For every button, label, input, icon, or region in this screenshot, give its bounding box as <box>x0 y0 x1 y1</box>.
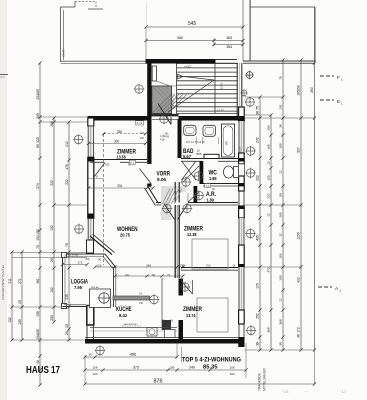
left wall below loggia segment <box>87 325 94 339</box>
left dim connector y205 <box>54 204 87 206</box>
survey point symbol 7 <box>194 190 204 200</box>
svg-text:105: 105 <box>267 175 271 180</box>
svg-text:75: 75 <box>167 273 171 277</box>
vorr door leaf zimmer1355 <box>140 169 152 184</box>
svg-text:65: 65 <box>36 144 40 148</box>
svg-text:109: 109 <box>36 329 40 335</box>
svg-text:5.67: 5.67 <box>183 154 191 159</box>
svg-text:160: 160 <box>279 253 283 258</box>
svg-text:90/128: 90/128 <box>172 100 175 108</box>
stair flight left edge <box>176 64 178 114</box>
right dim chain x271 lower <box>269 225 272 352</box>
svg-text:254: 254 <box>36 94 40 100</box>
left dim chain x40 labels <box>36 89 40 364</box>
kitchen cabinet block <box>90 289 111 308</box>
svg-text:194: 194 <box>92 372 97 376</box>
svg-text:90: 90 <box>98 258 102 262</box>
svg-text:20: 20 <box>50 258 54 262</box>
svg-text:152: 152 <box>8 317 12 323</box>
left wall pier at loggia door <box>87 240 94 253</box>
right dim chain x260 labels <box>256 106 260 346</box>
stair flights divider <box>214 63 216 114</box>
kitchen dark block <box>162 320 171 330</box>
survey point symbol 13 <box>245 97 255 107</box>
svg-text:181: 181 <box>125 273 130 277</box>
svg-text:90: 90 <box>225 141 229 145</box>
svg-text:1250: 1250 <box>297 232 301 240</box>
zimmer wall tag <box>130 160 136 164</box>
wall slab below lift <box>152 114 179 117</box>
svg-text:HAUS 17: HAUS 17 <box>26 365 60 376</box>
svg-text:90: 90 <box>152 273 156 277</box>
vorr ar partition wall <box>175 182 179 203</box>
svg-text:165: 165 <box>279 212 283 217</box>
bad washbasin 1 inner <box>186 127 194 133</box>
wohnen bottom dim row 2 <box>113 274 184 277</box>
svg-text:876: 876 <box>154 379 163 385</box>
bathtub <box>222 124 235 157</box>
left page edge shading <box>0 0 7 400</box>
svg-text:13.74: 13.74 <box>186 313 196 319</box>
ar left wall <box>194 186 198 203</box>
svg-text:159: 159 <box>36 229 40 235</box>
zimmer1374 door leaf triangle <box>181 280 193 294</box>
right wall pier 2 <box>239 176 245 191</box>
kitchen sink circle <box>98 292 110 304</box>
left wall pier top <box>88 118 94 126</box>
svg-text:KAMIN: KAMIN <box>62 49 66 57</box>
wohnen zimmer1238 divider wall <box>175 205 179 278</box>
svg-text:154: 154 <box>36 235 40 241</box>
svg-text:154: 154 <box>226 45 232 49</box>
loggia parapet top <box>63 254 106 256</box>
svg-text:90/205: 90/205 <box>221 82 224 90</box>
section marker F1 <box>320 75 334 77</box>
kitchen cabinet right edge <box>161 278 163 330</box>
bottom wall inner edge <box>85 337 238 339</box>
wohnen sw diagonal corner wall <box>90 234 115 255</box>
svg-text:+4.05: +4.05 <box>184 65 191 69</box>
loggia parapet bottom <box>63 305 88 307</box>
right wall pier 1 <box>239 107 245 121</box>
svg-text:334: 334 <box>117 184 123 188</box>
survey point symbol 4 <box>74 224 84 234</box>
left wall window zimmer <box>88 126 95 157</box>
top dim line 380/163 <box>144 39 244 46</box>
svg-text:108: 108 <box>229 366 234 370</box>
survey point symbol 3 <box>73 134 83 144</box>
survey point symbol 5 <box>162 203 172 213</box>
zimmer1374 top wall <box>181 268 238 271</box>
svg-text:311: 311 <box>8 278 12 283</box>
survey point BK <box>245 71 254 80</box>
vorr diagonal wall to wohnen <box>145 186 159 206</box>
zimmer1355 right wall <box>147 119 151 164</box>
left dim chain x54 <box>52 116 55 323</box>
survey point symbol 2 <box>159 114 169 124</box>
left dim connector y252 <box>12 253 87 258</box>
stair tower right wall <box>237 63 242 119</box>
svg-text:249: 249 <box>189 366 195 370</box>
svg-text:59: 59 <box>279 193 283 197</box>
svg-text:109: 109 <box>18 319 22 325</box>
top dim line 545 <box>144 25 244 28</box>
svg-text:20.75: 20.75 <box>120 233 130 239</box>
right dim chain x283 <box>281 58 284 351</box>
svg-text:25: 25 <box>65 331 69 335</box>
left dim chain x40 <box>38 61 41 386</box>
svg-text:300: 300 <box>114 139 120 143</box>
svg-text:545: 545 <box>188 21 197 27</box>
svg-text:1.89: 1.89 <box>207 197 215 202</box>
bottom dim line y384 876 <box>83 382 316 385</box>
stairwell door swing <box>157 81 171 86</box>
svg-text:105: 105 <box>256 283 260 289</box>
svg-text:165: 165 <box>267 144 271 149</box>
svg-text:344: 344 <box>140 132 145 135</box>
svg-text:432: 432 <box>297 277 301 283</box>
svg-text:150: 150 <box>139 302 144 305</box>
zimmer1355 dashed dim 380 <box>104 133 146 135</box>
svg-text:163: 163 <box>226 36 232 40</box>
svg-text:20: 20 <box>18 300 22 304</box>
bad washbasin 1 <box>184 125 196 135</box>
svg-text:85.35: 85.35 <box>203 365 218 371</box>
svg-text:90/205: 90/205 <box>239 146 242 154</box>
wohnen bottom dim row 1 <box>93 265 184 268</box>
svg-text:380: 380 <box>117 130 123 134</box>
stair treads bottom edge <box>177 113 239 115</box>
right dim chain x271 <box>269 113 272 226</box>
svg-text:222: 222 <box>267 193 271 198</box>
right dim chain x260 <box>258 95 261 351</box>
svg-text:222: 222 <box>256 175 260 181</box>
svg-text:4.96: 4.96 <box>165 136 170 138</box>
entry door jamb <box>170 117 172 125</box>
section marker A1 <box>318 286 332 288</box>
svg-text:38: 38 <box>256 111 260 115</box>
svg-text:152: 152 <box>50 225 54 231</box>
svg-text:380: 380 <box>177 36 183 40</box>
svg-text:12: 12 <box>267 161 271 165</box>
svg-text:LOGGIEN BRW. PLAN 22: LOGGIEN BRW. PLAN 22 <box>1 265 5 300</box>
survey point small near stair <box>240 89 248 97</box>
svg-text:159: 159 <box>297 85 301 91</box>
svg-text:373: 373 <box>133 366 139 370</box>
loggia diagonal corner to kitchen <box>103 254 116 269</box>
loggia corner post sw <box>62 304 67 309</box>
right dim chain x283 labels <box>279 76 283 346</box>
entry hatch strip <box>163 189 183 204</box>
left dim connector y340 <box>12 339 85 341</box>
landing slab edge line <box>61 61 148 63</box>
svg-text:212: 212 <box>65 141 69 147</box>
svg-text:12.38: 12.38 <box>187 232 197 238</box>
stair tower top wall window segment <box>215 60 237 64</box>
svg-text:30: 30 <box>65 324 69 328</box>
svg-text:-17: -17 <box>340 389 347 394</box>
svg-text:VORR: VORR <box>157 171 171 178</box>
svg-text:165: 165 <box>279 143 283 148</box>
survey point symbol 1 <box>134 84 144 94</box>
survey point symbol 15 <box>245 168 255 178</box>
left dim chain x69 <box>67 120 70 341</box>
stair treads horizontal <box>177 64 239 112</box>
svg-text:A.1: A.1 <box>130 161 134 165</box>
right dim chain x314 outer <box>313 7 316 352</box>
left loggia chain labels <box>8 278 22 325</box>
right wall pier 3 <box>239 206 245 218</box>
svg-text:180: 180 <box>36 89 40 95</box>
bad bottom wall <box>181 159 238 162</box>
svg-text:191: 191 <box>279 104 283 109</box>
svg-text:368: 368 <box>279 319 283 324</box>
svg-text:272: 272 <box>256 137 260 143</box>
svg-text:38: 38 <box>279 342 283 346</box>
svg-text:12: 12 <box>279 233 283 237</box>
svg-text:271: 271 <box>18 278 22 284</box>
wc toilet bowl <box>224 166 234 178</box>
zimmer1238 furniture rect <box>192 239 228 269</box>
stair walk arrow head <box>178 74 184 79</box>
survey point symbol 10 <box>180 282 190 292</box>
garderobe dashed note <box>122 325 142 327</box>
right wall pier bad <box>239 153 245 164</box>
right dim connector y267 <box>245 266 302 268</box>
right dim connector y350 <box>245 349 315 351</box>
upper storey outline left wall <box>61 7 64 62</box>
survey point symbol 17 <box>246 325 256 335</box>
svg-text:368: 368 <box>267 327 271 332</box>
top dim extension lines <box>146 0 251 61</box>
svg-text:472: 472 <box>267 267 271 272</box>
svg-text:108: 108 <box>92 366 97 370</box>
svg-text:7.95: 7.95 <box>74 285 82 290</box>
kitchen zimmer wall pier bottom <box>179 320 184 339</box>
svg-text:109: 109 <box>36 311 40 317</box>
ar door leaf <box>188 193 199 203</box>
left wall window wohnen <box>88 219 95 253</box>
svg-text:8.42: 8.42 <box>119 313 127 319</box>
svg-text:361: 361 <box>36 278 40 284</box>
right dim connector y205 <box>245 204 302 206</box>
svg-text:1.89: 1.89 <box>209 176 217 181</box>
wc cistern <box>234 167 239 178</box>
washing machine box <box>147 328 157 337</box>
top exterior wall left part <box>88 116 148 121</box>
svg-text:WOHNEN: WOHNEN <box>117 226 138 233</box>
svg-text:12: 12 <box>279 298 283 302</box>
right wall window zimmer1374 <box>238 267 244 310</box>
svg-text:-16: -16 <box>282 389 289 394</box>
right dim chain x271 labels <box>267 125 271 332</box>
bottom dim extensions <box>85 343 315 384</box>
bottom dim line y370 <box>83 368 247 371</box>
svg-text:12: 12 <box>279 170 283 174</box>
right wall wc segment <box>238 164 244 176</box>
svg-text:165: 165 <box>297 90 301 96</box>
top exterior wall entry stub <box>179 116 182 121</box>
svg-text:36: 36 <box>279 124 283 128</box>
upper storey outline top notch <box>61 2 104 10</box>
svg-text:300: 300 <box>105 163 110 167</box>
svg-text:38: 38 <box>256 342 260 346</box>
svg-text:435: 435 <box>256 235 260 241</box>
left dim chain x69 labels <box>65 141 69 335</box>
right dim chain x301 labels <box>297 85 301 338</box>
bad washbasin 2 <box>203 125 216 136</box>
svg-text:252: 252 <box>256 313 260 319</box>
right dim connector y63 <box>243 62 315 64</box>
svg-text:52: 52 <box>148 184 152 188</box>
stair walk line <box>168 77 214 113</box>
lift shaft hatch lines <box>152 95 187 114</box>
left dim chain x54 labels <box>50 121 54 321</box>
svg-text:ZIMMER: ZIMMER <box>117 148 136 155</box>
svg-text:12: 12 <box>267 213 271 217</box>
left dim chains loggia x12 x22 <box>10 250 23 341</box>
svg-text:390: 390 <box>36 113 40 119</box>
svg-text:TOP 5 4-ZI-WOHNUNG: TOP 5 4-ZI-WOHNUNG <box>182 357 241 364</box>
double door tint watermark arm <box>172 186 187 193</box>
svg-text:GARDEROBE: GARDEROBE <box>123 323 138 326</box>
svg-text:104: 104 <box>36 334 40 340</box>
left wall pier middle <box>88 158 94 219</box>
svg-text:75: 75 <box>65 243 69 247</box>
survey point symbol 8 <box>181 177 191 187</box>
loggia corner post nw <box>62 253 67 258</box>
svg-text:F: F <box>337 75 340 80</box>
svg-text:374: 374 <box>36 183 40 189</box>
zimmer1374 furniture rect <box>197 298 228 332</box>
survey point symbol 14 <box>245 146 255 156</box>
stairwell door leaf rect <box>152 66 156 81</box>
lift shaft hatched block <box>152 86 172 114</box>
left dim connector y307 <box>12 306 62 308</box>
svg-text:--: -- <box>305 389 308 394</box>
neighbour outline top edge <box>250 0 315 61</box>
stair tower left wall <box>147 59 151 119</box>
svg-text:152: 152 <box>50 287 54 293</box>
svg-text:75: 75 <box>279 76 283 80</box>
svg-text:E: E <box>337 99 340 104</box>
svg-text:TRAGENDE: TRAGENDE <box>258 373 262 391</box>
wc door leaf <box>183 166 199 182</box>
svg-text:A.13: A.13 <box>137 121 143 125</box>
svg-text:A.2: A.2 <box>206 184 210 188</box>
svg-text:ZIMMER: ZIMMER <box>184 226 203 233</box>
bottom dim line y357 <box>83 355 178 358</box>
svg-text:13.55: 13.55 <box>117 154 127 160</box>
loggia dim line 272 <box>63 264 88 266</box>
right dim chain x301 <box>299 58 302 351</box>
right wall pier 5 <box>239 310 245 324</box>
svg-text:+2.76: +2.76 <box>217 108 224 112</box>
bad washbasin 2 inner <box>205 127 214 134</box>
double door tint watermark vertical <box>161 186 172 220</box>
svg-text:BFK AH: BFK AH <box>91 286 99 289</box>
survey point symbol 16 <box>245 228 255 238</box>
loggia floor edge line <box>65 304 113 306</box>
entry door leaf <box>158 104 171 125</box>
svg-text:38: 38 <box>88 353 92 357</box>
wohnen door leaf from zimmer wall <box>94 163 105 178</box>
survey point symbol 11 <box>95 345 105 355</box>
svg-text:(38): (38) <box>170 366 175 370</box>
wohnen dashed guide vertical <box>103 134 105 265</box>
corridor wall above zimmer1238 <box>156 203 238 206</box>
zimmer1355 wall stub below door <box>147 184 151 187</box>
wc bottom wall <box>203 184 238 187</box>
svg-text:235: 235 <box>65 294 69 300</box>
stair landing line upper <box>152 85 177 87</box>
svg-text:230: 230 <box>140 137 145 140</box>
lift shaft crosshatch <box>152 86 179 100</box>
bad dim row ticks <box>197 137 219 145</box>
survey point symbol 9 <box>193 171 203 181</box>
left wall pier loggia lower <box>87 306 94 326</box>
svg-text:260: 260 <box>310 87 314 93</box>
neighbour outline eave double line <box>243 61 315 64</box>
double door leaves V <box>164 204 188 220</box>
right wall lower segment <box>239 324 244 337</box>
section marker E1 <box>320 99 334 101</box>
right wall pier 4 <box>239 245 245 267</box>
wc left wall <box>200 161 204 184</box>
svg-text:ZIMMER: ZIMMER <box>183 306 202 313</box>
survey point symbol 12 <box>149 294 159 304</box>
svg-text:310: 310 <box>206 263 211 267</box>
svg-text:MITTELMAUER: MITTELMAUER <box>263 367 267 391</box>
svg-text:9.06: 9.06 <box>157 177 166 183</box>
ar wall tag <box>205 184 211 188</box>
stair tower top wall <box>146 59 216 64</box>
bad door cross <box>182 161 197 180</box>
svg-text:46: 46 <box>297 334 301 338</box>
right wall window bad <box>238 121 244 158</box>
svg-text:75: 75 <box>36 245 40 249</box>
svg-text:222: 222 <box>65 179 69 185</box>
svg-text:348: 348 <box>146 263 151 267</box>
loggia parapet left <box>63 254 66 307</box>
bathtub inner <box>223 126 233 156</box>
svg-text:272: 272 <box>78 261 83 265</box>
svg-text:476: 476 <box>65 164 69 170</box>
svg-text:456: 456 <box>130 353 136 357</box>
svg-text:75: 75 <box>256 106 260 110</box>
svg-text:172: 172 <box>297 327 301 333</box>
dryer box <box>165 330 176 338</box>
bad radiator <box>204 154 219 158</box>
svg-text:194: 194 <box>229 372 234 376</box>
loggia glass wall to kitchen <box>114 267 116 307</box>
top exterior wall right part <box>181 116 242 121</box>
wohnen top dim line 334 <box>89 187 154 189</box>
left dim connector y117 <box>40 117 87 122</box>
right dim connector y118 <box>245 115 315 118</box>
survey point symbol 6 <box>182 203 192 213</box>
zimmer1355 solid dim 300 <box>89 143 146 145</box>
right dim connector y97 <box>245 96 284 98</box>
svg-text:B05: B05 <box>197 152 202 156</box>
washing machine circle <box>149 329 155 335</box>
zimmer1355 bottom wall <box>90 160 147 163</box>
right wall window zimmer1238 <box>238 218 244 245</box>
svg-text:200: 200 <box>50 315 54 321</box>
svg-text:(34): (34) <box>85 258 90 261</box>
svg-text:320: 320 <box>36 137 40 143</box>
wohnen top small tick 8 <box>89 178 104 180</box>
